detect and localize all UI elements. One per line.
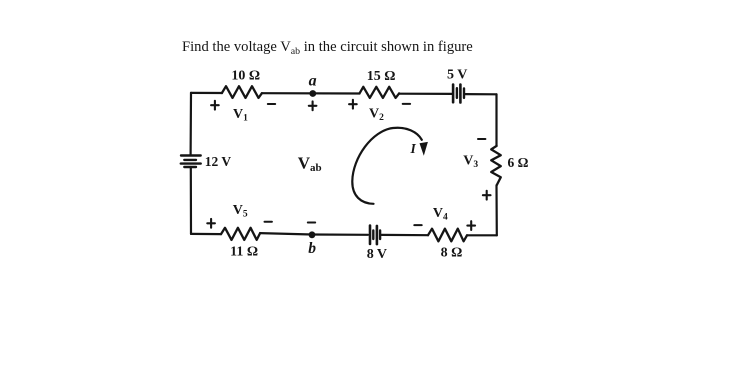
label 5V value	[447, 68, 467, 83]
label 12V value	[205, 154, 232, 169]
label Vab	[298, 153, 322, 174]
label current I	[410, 141, 417, 156]
wire bottom segment (R5 to node b to 8V battery)	[260, 233, 368, 235]
label 11Ω value	[230, 245, 258, 260]
resistor R3 6Ω vertical zigzag	[491, 146, 501, 186]
svg-text:V2: V2	[369, 107, 384, 124]
svg-text:Vab: Vab	[298, 153, 322, 174]
label node b with minus	[308, 222, 315, 224]
label 6Ω value	[508, 155, 529, 170]
current loop arrow arc	[352, 128, 422, 204]
resistor R5 11Ω zigzag	[221, 228, 260, 240]
wire top segment R2 to 5V battery	[399, 93, 452, 95]
wire top-right segment (battery to corner)	[465, 93, 496, 95]
svg-text:V1: V1	[233, 107, 248, 124]
current loop arrowhead	[420, 142, 428, 156]
wire left side lower (battery to bottom corner)	[190, 167, 192, 234]
label 8V value	[367, 247, 387, 262]
label V3 with polarity	[478, 139, 491, 200]
label 15Ω value	[367, 69, 396, 84]
label 8Ω value	[441, 245, 463, 260]
resistor R2 15Ω zigzag	[360, 87, 400, 98]
svg-text:V5: V5	[233, 203, 248, 220]
svg-text:a: a	[309, 72, 317, 89]
svg-text:10 Ω: 10 Ω	[231, 69, 260, 84]
label V2 with polarity	[349, 100, 410, 109]
svg-text:11 Ω: 11 Ω	[230, 245, 258, 260]
battery B1 5V plates	[453, 85, 464, 103]
wire bottom-right segment	[467, 234, 497, 236]
label + at node a	[309, 101, 317, 110]
svg-text:12 V: 12 V	[205, 154, 232, 169]
svg-text:V4: V4	[433, 206, 448, 223]
wire left side upper (corner down to 12V battery)	[190, 93, 193, 155]
svg-text:15 Ω: 15 Ω	[367, 69, 396, 84]
node b junction dot	[309, 231, 316, 238]
svg-text:8 V: 8 V	[367, 247, 387, 262]
wire right side upper (corner down to R6)	[495, 94, 497, 146]
label node a	[309, 72, 317, 89]
label 10Ω value	[231, 69, 260, 84]
battery B3 8V plates	[370, 226, 380, 245]
svg-text:Find the voltage Vab in the ci: Find the voltage Vab in the circuit show…	[182, 39, 473, 57]
wire top-middle segment (R1 to node a to R2)	[262, 92, 360, 95]
resistor R1 10Ω zigzag	[222, 86, 262, 98]
label V4 with polarity	[414, 221, 475, 230]
svg-text:b: b	[308, 240, 316, 257]
wire bottom-left segment	[191, 233, 221, 235]
wire bottom segment (8V battery to R4)	[382, 234, 429, 237]
label V1 with polarity	[211, 101, 275, 110]
wire right side lower (R3 to bottom corner)	[495, 185, 497, 235]
wire top-left segment	[191, 92, 222, 94]
battery B2 12V plates	[181, 156, 201, 168]
resistor R4 8Ω zigzag	[428, 229, 467, 242]
label V5 with polarity	[207, 219, 272, 228]
svg-text:6 Ω: 6 Ω	[508, 155, 529, 170]
title: Find the voltage Vab in the circuit shown in figure	[182, 39, 473, 57]
node a junction dot	[309, 90, 316, 97]
svg-text:5 V: 5 V	[447, 68, 467, 83]
svg-text:I: I	[410, 141, 417, 156]
svg-text:V3: V3	[463, 154, 478, 171]
svg-text:8 Ω: 8 Ω	[441, 245, 463, 260]
